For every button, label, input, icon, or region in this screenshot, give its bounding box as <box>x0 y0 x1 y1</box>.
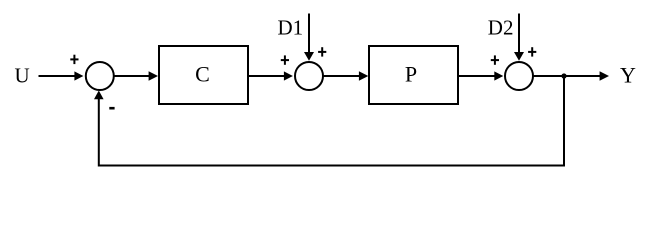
plus sign at S3 top input <box>528 47 536 56</box>
junction dot on output wire <box>561 73 566 78</box>
wire P to summing junction S3 <box>459 71 503 80</box>
wire S1 to block C <box>114 71 158 81</box>
svg-text:Y: Y <box>620 63 636 88</box>
feedback wire from junction dot to S1 <box>94 77 564 166</box>
summing junction S2 <box>295 62 323 90</box>
minus sign at S1 feedback input <box>109 107 114 110</box>
plus sign at S1 input <box>70 55 78 64</box>
svg-text:P: P <box>405 62 417 87</box>
wire U to summing junction S1 <box>39 71 84 80</box>
svg-text:D1: D1 <box>278 15 304 39</box>
plus sign at S3 left input <box>491 55 499 64</box>
block C <box>159 46 248 104</box>
summing junction S1 <box>86 62 114 90</box>
svg-text:U: U <box>15 63 30 87</box>
summing junction S3 <box>505 62 533 90</box>
block P <box>369 46 458 104</box>
wire D1 to summing junction S2 <box>304 14 314 61</box>
plus sign at S2 left input <box>281 55 289 64</box>
wire C to summing junction S2 <box>249 71 293 80</box>
svg-text:C: C <box>195 62 210 87</box>
plus sign at S2 top input <box>318 47 326 56</box>
wire D2 to summing junction S3 <box>514 14 524 61</box>
svg-text:D2: D2 <box>488 15 514 39</box>
wire S2 to block P <box>323 71 368 81</box>
wire S3 to output Y <box>533 71 609 81</box>
